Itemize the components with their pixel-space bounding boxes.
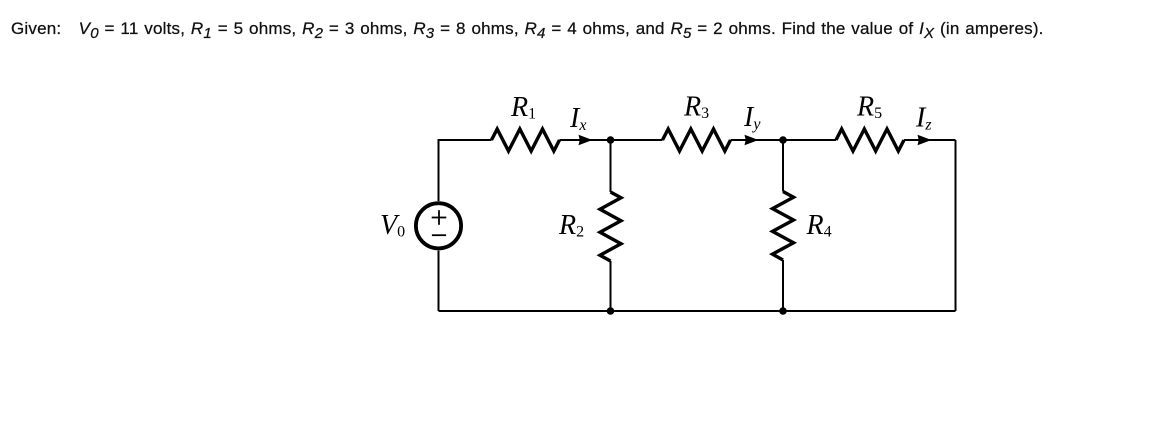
bottom node dot under A [607,307,615,315]
V0 minus sign [432,234,446,236]
svg-text:R4: R4 [806,210,832,241]
wire: R2 to bottom rail [610,261,612,311]
current arrow Iy [745,135,759,145]
V0 plus sign [432,210,447,225]
current arrow Ix [579,135,593,145]
wire: R4 to bottom rail [782,260,784,311]
resistor R5 zigzag [836,129,904,151]
problem statement text [11,20,1044,38]
voltage source V0 circle [416,203,461,248]
wire: R1 to node A (with Ix arrow) [560,139,611,141]
resistor R4 zigzag [773,192,794,261]
wire: node B to R5 [783,139,836,141]
node A dot [607,136,615,144]
svg-text:R2: R2 [558,210,584,241]
resistor R1 zigzag [492,129,560,151]
svg-text:Ix: Ix [569,103,586,134]
wire: node B down to R4 [782,140,784,192]
wire: R3 to node B (with Iy arrow) [731,139,784,141]
resistor R2 zigzag [600,192,621,261]
svg-text:V0: V0 [380,210,405,241]
svg-text:Iy: Iy [743,102,761,133]
svg-text:R5: R5 [856,92,882,123]
svg-text:Iz: Iz [915,103,932,134]
wire: right vertical [955,140,957,311]
wire: top left segment V0 to R1 [439,140,492,201]
wire: node A to R3 [611,139,663,141]
wire: V0 bottom to bottom rail [438,251,440,312]
node B dot [779,136,787,144]
wire: R5 to top right corner [904,139,956,141]
svg-text:R1: R1 [510,92,536,123]
wire: node A down to R2 [610,140,612,192]
resistor R3 zigzag [663,129,731,151]
wire: bottom rail [439,310,956,312]
current arrow Iz [918,135,932,145]
bottom node dot under B [779,307,787,315]
svg-text:R3: R3 [683,92,709,123]
